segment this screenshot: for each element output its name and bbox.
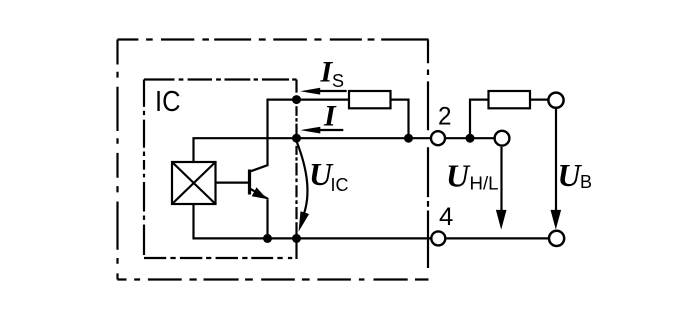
terminal circle top right [548,93,563,108]
terminal circle bottom right [549,231,564,246]
junction node (collector/Is) [292,95,301,104]
wire: main line y=138.2 (box top to open circle) [194,138,502,162]
outer dash-dot enclosure [118,40,429,280]
svg-text:S: S [332,71,344,91]
svg-text:U: U [446,158,471,194]
voltage arrow U_IC (curved) [297,142,309,232]
wire: resistor R1 to main line [391,100,409,139]
svg-text:B: B [580,172,592,192]
IC block boundary [144,80,297,259]
transistor Q1 [216,170,268,200]
sensor element (crossed box) [172,162,216,204]
transistor emitter arrowhead [252,187,268,199]
wire: node to external resistor [470,100,489,139]
voltage arrow U_HL [496,147,507,230]
wire: emitter drop [266,200,268,239]
terminal circle 4 [431,231,445,245]
junction node (main line / IC edge) [292,134,301,143]
voltage arrow U_B [551,109,562,230]
junction node (external resistor tap) [466,134,475,143]
junction node (Is loop rejoin) [404,134,413,143]
svg-text:IC: IC [331,175,349,195]
svg-text:H/L: H/L [470,174,499,194]
wire stub below bottom node at IC edge [295,238,297,259]
svg-text:2: 2 [438,103,452,131]
resistor R2 (external pull-up) [489,91,531,108]
resistor R1 (internal, Is path) [349,91,391,108]
terminal circle 2 [431,131,445,145]
svg-text:IC: IC [155,86,181,118]
svg-text:4: 4 [439,203,453,231]
svg-text:I: I [323,100,337,133]
current arrow I [300,127,343,134]
current arrow Is [300,88,347,95]
wire: resistor R2 to terminal [530,98,548,100]
svg-text:U: U [558,157,583,193]
junction node (bottom line / IC edge) [292,234,301,243]
open circle U_HL tap [495,131,510,146]
wire: collector riser and Is loop feed [251,100,350,172]
junction node (emitter / bottom line) [263,234,272,243]
wire: bottom line y=238.4 [194,204,549,238]
